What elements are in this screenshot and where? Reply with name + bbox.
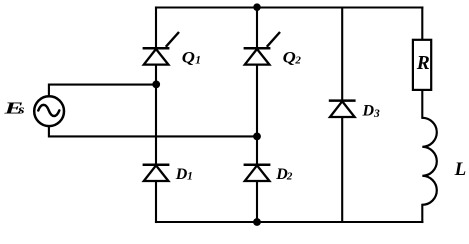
- wire middle branch top (rail to Q2): [256, 8, 258, 49]
- wire D3 branch top (rail to D3): [341, 8, 343, 101]
- svg-text:3: 3: [373, 108, 380, 120]
- svg-text:Q: Q: [283, 49, 296, 67]
- svg-text:1: 1: [187, 171, 193, 183]
- svg-text:1: 1: [195, 55, 201, 67]
- wire left branch bottom (D1 to bottom rail): [155, 181, 157, 222]
- wire left branch middle (Q1 to D1): [155, 65, 157, 165]
- svg-text:L: L: [454, 159, 467, 180]
- wire left branch top (rail to Q1): [155, 8, 157, 49]
- resistor R: [413, 40, 431, 90]
- wire middle branch bottom (D2 to bottom rail): [256, 181, 258, 222]
- svg-text:2: 2: [286, 171, 293, 183]
- svg-text:R: R: [416, 53, 430, 74]
- svg-text:s: s: [17, 103, 25, 117]
- wire right branch bottom (L to bottom rail): [421, 205, 423, 222]
- svg-text:Q: Q: [182, 49, 195, 67]
- ac source Es: [34, 96, 64, 126]
- thyristor Q1: [143, 32, 179, 65]
- wire top rail: [156, 6, 422, 8]
- wire D3 branch bottom (D3 to bottom rail): [341, 117, 343, 222]
- wire right branch top (rail to R): [421, 8, 423, 41]
- diode D3: [329, 101, 356, 117]
- svg-text:D: D: [175, 166, 188, 183]
- wire right branch middle (R to L): [421, 90, 423, 118]
- svg-text:D: D: [362, 103, 375, 120]
- node: source top to Q1/D1 junction: [152, 81, 160, 89]
- node: bottom rail / D2 branch junction: [253, 218, 261, 226]
- wire source bottom lead: [49, 126, 257, 136]
- node: top rail / Q2 branch junction: [253, 3, 261, 11]
- inductor L: [422, 118, 437, 205]
- diode D2: [244, 165, 271, 181]
- wire bottom rail: [156, 221, 422, 223]
- svg-text:2: 2: [294, 55, 301, 67]
- thyristor Q2: [244, 32, 280, 65]
- diode D1: [143, 165, 170, 181]
- node: source bottom to Q2/D2 junction: [253, 133, 261, 141]
- wire middle branch middle (Q2 to D2): [256, 65, 258, 165]
- wire source top lead: [49, 85, 156, 96]
